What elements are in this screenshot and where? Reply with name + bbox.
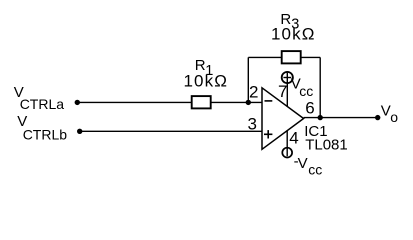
node output junction [318,115,323,120]
op-amp inverting input minus [265,100,273,102]
wire feedback left vertical [247,57,249,102]
wire R1 to pin 2 [211,101,262,103]
wire pin 7 to +Vcc [286,73,288,107]
svg-text:V: V [381,103,391,120]
svg-text:CTRLa: CTRLa [20,96,65,112]
svg-text:7: 7 [278,82,287,101]
svg-text:10kΩ: 10kΩ [271,25,316,44]
label R3 [280,11,299,32]
resistor R1 [192,96,211,108]
svg-text:CTRLb: CTRLb [23,126,68,142]
svg-text:o: o [390,109,398,125]
label VCTRLb [17,113,67,142]
svg-text:3: 3 [248,115,257,134]
wire VCTRLb to pin 3 [80,130,262,132]
label VCTRLa [14,84,65,112]
wire feedback top left [248,56,281,58]
svg-text:cc: cc [299,83,313,99]
svg-text:V: V [298,155,308,172]
node VCTRLa [75,100,80,105]
wire output [304,117,378,119]
node feedback junction at pin 2 [246,100,251,105]
svg-text:6: 6 [305,99,314,118]
svg-text:TL081: TL081 [305,137,348,154]
wire feedback top right [301,56,321,58]
label R1 [195,57,214,79]
op-amp U1 triangle [262,88,304,150]
svg-text:cc: cc [308,162,322,178]
wire feedback right vertical [319,57,321,117]
svg-text:4: 4 [289,129,298,148]
wire pin 4 to -Vcc [286,130,288,156]
label -Vcc [294,153,323,178]
positive supply symbol +Vcc [282,72,293,83]
svg-text:10kΩ: 10kΩ [184,71,229,90]
resistor R3 [282,51,301,63]
svg-text:2: 2 [249,82,258,101]
op-amp non-inverting input plus [264,130,272,138]
negative supply symbol -Vcc [282,148,292,158]
wire VCTRLa to R1 [77,101,191,103]
label +Vcc [291,76,314,100]
label Vo [381,103,399,125]
node VCTRLb [77,129,82,134]
node Vo terminal [375,115,380,120]
